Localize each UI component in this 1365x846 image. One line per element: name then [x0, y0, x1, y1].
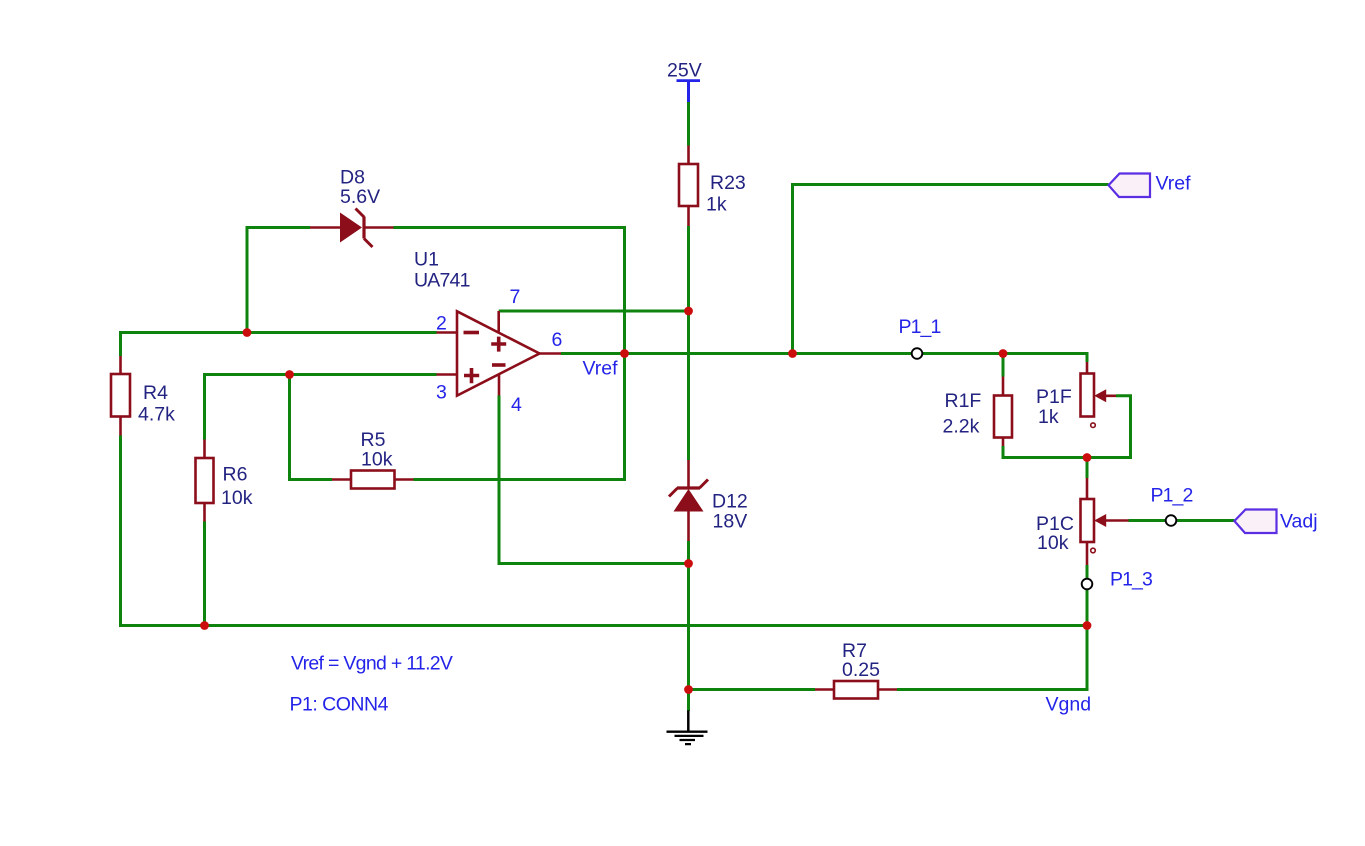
wire: R7 left to ground column — [689, 688, 816, 691]
svg-text:U1: U1 — [414, 249, 439, 271]
resistor R5 leads — [332, 478, 414, 481]
junction dot ground/R7 — [684, 685, 693, 694]
potentiometer P1C end marker — [1091, 548, 1096, 553]
svg-text:10k: 10k — [221, 487, 253, 509]
svg-text:Vref: Vref — [1156, 173, 1192, 195]
svg-text:R1F: R1F — [945, 390, 982, 412]
svg-text:1k: 1k — [1038, 406, 1059, 428]
svg-text:5.6V: 5.6V — [340, 186, 380, 208]
svg-text:P1_2: P1_2 — [1151, 485, 1193, 507]
op-amp U1 — [457, 311, 540, 395]
flag Vadj — [1234, 510, 1276, 534]
svg-text:R6: R6 — [223, 463, 248, 485]
svg-text:2: 2 — [436, 313, 447, 335]
junction dot pin2/D8 — [243, 328, 252, 337]
wire: P1C top lead — [1086, 458, 1089, 479]
svg-text:2.2k: 2.2k — [943, 415, 980, 437]
wire: D8 cathode to vertical feedback column down to R5 row — [394, 228, 625, 480]
svg-text:Vadj: Vadj — [1280, 511, 1318, 533]
svg-text:R23: R23 — [710, 172, 746, 194]
wire: P1_3 pin to bottom bus and down to Vgnd row to R7 — [897, 589, 1087, 690]
op-amp input plus marker — [464, 368, 479, 383]
wire: 25V to R23 — [687, 102, 690, 146]
resistor R6 leads — [203, 440, 206, 522]
wire: pin3 node down to R5 left — [290, 375, 333, 480]
resistor R23 leads — [687, 146, 690, 227]
op-amp supply plus marker — [491, 337, 506, 352]
svg-text:R4: R4 — [143, 382, 168, 404]
wire: R1F bottom row and P1F wiper loop — [1003, 396, 1131, 458]
potentiometer P1F leads — [1087, 362, 1116, 396]
svg-text:D12: D12 — [712, 491, 748, 513]
flag Vref — [1109, 174, 1151, 198]
resistor R4 leads — [119, 356, 122, 436]
wire: 25V supply stub (blue) — [0, 0, 1, 1]
power 25V bar — [677, 79, 701, 82]
wire: R1F top lead — [1002, 354, 1005, 377]
wire: D12 bottom down through pin4 node, past bottom bus, to ground node — [687, 541, 690, 711]
potentiometer P1C leads — [1087, 478, 1129, 565]
diode D12 leads — [687, 460, 690, 541]
svg-text:0.25: 0.25 — [842, 659, 880, 681]
wire: R6 bottom to bottom bus — [203, 522, 206, 626]
resistor R5 — [351, 471, 395, 489]
op-amp input minus marker — [464, 331, 480, 335]
potentiometer P1F end marker — [1091, 423, 1096, 428]
connector pin P1_3 — [1082, 579, 1093, 590]
resistor R7 — [834, 681, 878, 699]
junction dot pin7/R23 — [684, 307, 693, 316]
svg-text:Vref = Vgnd + 11.2V: Vref = Vgnd + 11.2V — [291, 653, 453, 675]
svg-text:10k: 10k — [1037, 532, 1069, 554]
svg-text:P1: CONN4: P1: CONN4 — [290, 694, 389, 716]
wire: R23 bottom down through pin7 node to D12 top — [687, 226, 690, 460]
resistor R1F leads — [1002, 377, 1005, 447]
junction dot P1F bottom — [1083, 453, 1092, 462]
svg-text:P1_1: P1_1 — [899, 316, 941, 338]
svg-text:10k: 10k — [361, 448, 393, 470]
potentiometer P1F — [1081, 374, 1095, 417]
potentiometer P1C — [1081, 499, 1095, 542]
wire: Vref flag branch — [793, 185, 1109, 354]
svg-text:3: 3 — [436, 382, 447, 404]
wire: pin2 input row — [121, 333, 437, 357]
junction dot bottom bus / P1C column — [1083, 621, 1092, 630]
svg-text:7: 7 — [510, 286, 521, 308]
svg-text:Vref: Vref — [583, 358, 619, 380]
wire: R4 bottom to bottom bus to P1C column — [121, 436, 1088, 626]
svg-text:25V: 25V — [667, 60, 702, 82]
diode D12 (zener, cathode up) — [674, 489, 704, 512]
potentiometer P1F wiper arrow — [1094, 389, 1106, 402]
svg-text:P1F: P1F — [1036, 386, 1072, 408]
junction dot output/feedback — [620, 349, 629, 358]
junction dot R1F top — [999, 349, 1008, 358]
svg-text:UA741: UA741 — [414, 270, 470, 292]
connector pin P1_1 — [912, 348, 923, 359]
wire: pin7 row to supply column — [499, 310, 689, 313]
connector pin P1_2 — [1166, 515, 1177, 526]
wire: pin3 input row to R6 top — [205, 375, 437, 440]
op-amp U1 leads — [437, 311, 562, 396]
ground — [687, 710, 690, 730]
wire: P1C bottom to P1_3 pin — [1086, 565, 1089, 579]
wire: D8 anode loop (left column to pin2 net) — [247, 228, 310, 333]
junction dot pin3/R5 — [285, 370, 294, 379]
junction dot pin4/D12 — [684, 559, 693, 568]
resistor R6 — [196, 458, 214, 503]
diode D8 (zener) — [340, 213, 362, 243]
svg-text:6: 6 — [552, 329, 563, 351]
junction dot R6 bottom bus — [200, 621, 209, 630]
resistor R4 — [111, 374, 130, 417]
svg-text:P1_3: P1_3 — [1110, 569, 1152, 591]
wire: P1C wiper to Vadj flag — [1129, 519, 1235, 522]
op-amp supply minus marker — [492, 363, 506, 367]
resistor R1F — [994, 396, 1012, 438]
resistor R23 — [679, 164, 698, 206]
wire: output row to P1F column — [561, 354, 1087, 363]
svg-text:Vgnd: Vgnd — [1046, 694, 1092, 716]
diode D8 leads — [310, 226, 394, 229]
svg-text:1k: 1k — [706, 194, 727, 216]
svg-text:18V: 18V — [713, 510, 748, 532]
junction dot Vref branch — [788, 349, 797, 358]
wire: pin4 down and right to D12 bottom node — [499, 396, 689, 564]
resistor R7 leads — [815, 688, 897, 691]
svg-text:4: 4 — [511, 394, 522, 416]
svg-text:4.7k: 4.7k — [138, 404, 175, 426]
potentiometer P1C wiper arrow — [1094, 514, 1106, 527]
